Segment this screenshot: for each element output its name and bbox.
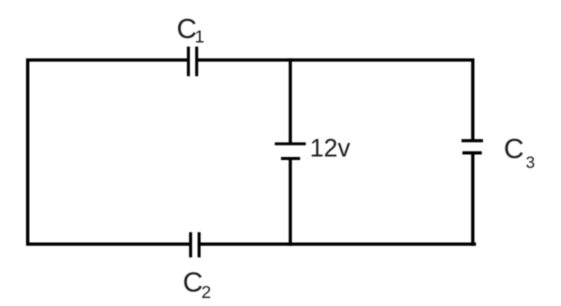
- battery B1 plate short: [281, 157, 300, 160]
- svg-text:3: 3: [526, 154, 535, 172]
- wire: right side lower: [471, 153, 474, 246]
- wire: top-right segment and right side upper: [197, 60, 473, 141]
- capacitor C2: [191, 232, 200, 257]
- svg-text:C: C: [183, 267, 203, 298]
- svg-text:12v: 12v: [310, 135, 351, 163]
- capacitor C1: [188, 47, 196, 77]
- wire: middle branch upper: [289, 58, 292, 144]
- wire: top-left, left side, bottom-left segment: [28, 60, 190, 244]
- label C2: [183, 267, 211, 302]
- wire: middle branch lower: [289, 159, 292, 246]
- svg-text:2: 2: [201, 282, 211, 302]
- svg-text:1: 1: [195, 27, 205, 47]
- wire: bottom-right segment: [199, 243, 476, 246]
- label C1: [177, 13, 205, 46]
- battery B1 plate long: [275, 142, 306, 145]
- capacitor C3: [462, 141, 484, 153]
- label C3: [504, 133, 535, 172]
- svg-text:C: C: [504, 133, 524, 164]
